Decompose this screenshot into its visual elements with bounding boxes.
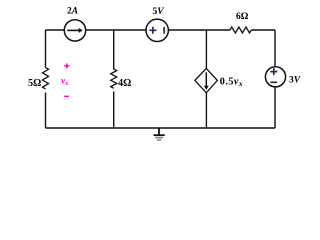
svg-text:4Ω: 4Ω <box>118 78 131 89</box>
V2 minus sign <box>270 81 277 83</box>
vx polarity plus (magenta) <box>64 63 69 68</box>
voltage source V1 5V circle <box>146 19 168 41</box>
current source I1 circle <box>64 20 85 41</box>
ground bar 2 <box>155 137 163 139</box>
resistor 4ohm zigzag <box>111 69 117 88</box>
ground stub <box>158 128 160 135</box>
dependent source arrow (down) <box>205 72 207 86</box>
svg-text:6Ω: 6Ω <box>236 12 249 22</box>
wire dep-source branch lower <box>205 93 207 128</box>
wire dep-source branch upper <box>205 30 207 68</box>
svg-text:5V: 5V <box>153 7 165 17</box>
wire top: 6ohm resistor to right corner <box>251 29 275 31</box>
wire bottom <box>46 127 276 129</box>
resistor 5ohm zigzag <box>43 68 49 89</box>
wire top: 5V source to 6ohm resistor (node through dep-source junction) <box>169 29 230 31</box>
svg-text:2A: 2A <box>67 6 78 16</box>
wire 4ohm branch upper <box>113 30 115 69</box>
wire 4ohm branch lower <box>113 92 115 129</box>
V1 minus sign (vertical bar) <box>163 27 165 34</box>
V2 plus sign <box>270 68 277 75</box>
svg-text:3V: 3V <box>289 75 301 85</box>
svg-text:5Ω: 5Ω <box>28 78 41 89</box>
V1 plus sign <box>149 27 156 34</box>
svg-text:0.5vx: 0.5vx <box>220 77 243 89</box>
current source I1 arrow <box>67 29 79 31</box>
wire top: current source to 5V source (node through 4ohm junction) <box>86 29 146 31</box>
dependent source diamond <box>195 68 218 92</box>
ground bar 3 <box>157 139 161 141</box>
voltage source V2 3V circle <box>265 67 285 87</box>
wire right lower <box>274 87 276 128</box>
resistor 6ohm zigzag <box>230 27 251 33</box>
svg-text:vx: vx <box>61 75 69 87</box>
wire left lower <box>45 93 47 129</box>
wire top: left corner to current source <box>46 29 65 31</box>
wire right upper <box>274 30 276 67</box>
ground bar 1 <box>154 134 165 136</box>
vx polarity minus (magenta) <box>64 95 69 97</box>
wire left upper <box>45 30 47 68</box>
